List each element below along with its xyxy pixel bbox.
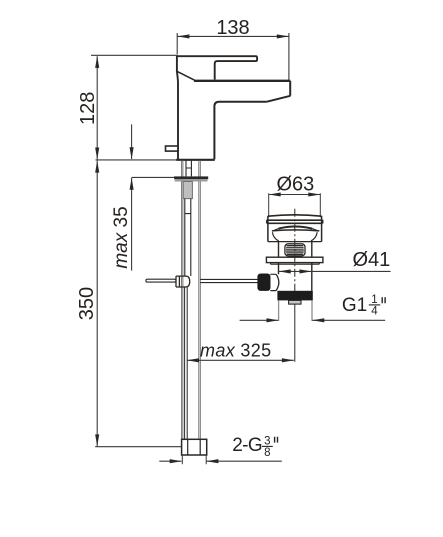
svg-text:2-G: 2-G <box>232 435 262 456</box>
pop-up rod connector <box>176 276 190 287</box>
dimension diam41 left arrow <box>279 269 291 273</box>
pop-up rod upper <box>185 199 191 276</box>
dimension 128 line <box>96 56 98 159</box>
hex nut facets <box>188 439 201 455</box>
svg-text:G1: G1 <box>342 295 367 316</box>
tube lower gray walls <box>279 300 312 321</box>
dimension max325 left arrow <box>187 358 199 362</box>
extension line 350 bottom <box>95 446 181 448</box>
dimension 350 line <box>96 161 98 447</box>
dimension 138 right arrow <box>277 34 289 38</box>
dimension diam63 right arrow <box>308 192 320 196</box>
drain centerline lower solid <box>294 300 296 362</box>
dimension 2G38 right line <box>206 460 281 462</box>
valve plunger dome <box>276 274 279 290</box>
svg-text:1: 1 <box>371 294 377 306</box>
extension line 128 top <box>91 54 177 56</box>
dimension G114 left line <box>240 319 279 321</box>
extension lines diam63 <box>269 193 321 217</box>
dimension diam63 line <box>269 194 321 196</box>
dimension 350 bottom arrow <box>95 434 99 446</box>
dimension 2G38 right arrow <box>206 459 218 463</box>
faucet body left edge <box>177 82 179 159</box>
faucet lever left edge <box>177 55 178 82</box>
horizontal rod left <box>146 279 176 282</box>
popup cap dome end ticks <box>273 229 318 231</box>
mounting washer gray <box>175 179 208 181</box>
svg-text:138: 138 <box>216 17 249 39</box>
popup cap top rim arc <box>268 215 322 216</box>
drain neck walls <box>279 242 312 257</box>
side knob <box>257 274 270 291</box>
dimension 2G38 left line <box>159 460 181 462</box>
popup cap funnel curves <box>272 232 317 241</box>
dimension 128 bottom arrow <box>95 148 99 160</box>
popup cap dome base <box>272 230 319 231</box>
dimension diam63 left arrow <box>269 192 281 196</box>
threaded rod above washer <box>186 160 191 176</box>
dimension max325 line <box>187 359 294 361</box>
svg-text:max 35: max 35 <box>111 206 132 268</box>
popup cap cylinder sides <box>268 216 322 242</box>
popup cap rim band <box>267 220 323 224</box>
faucet spout undercut <box>267 96 291 102</box>
extension line 138 left <box>176 33 178 55</box>
dimension max35 up arrow <box>130 178 134 190</box>
svg-text:8: 8 <box>264 447 270 459</box>
faucet spout right edge <box>289 81 291 96</box>
dimension max325 right arrow <box>282 358 294 362</box>
drain centerline dash-dot <box>294 209 296 300</box>
faucet spout bottom <box>214 102 267 160</box>
svg-text:Ø63: Ø63 <box>276 173 314 195</box>
faucet base bottom <box>176 159 215 161</box>
dimension G114 left arrow <box>267 318 279 322</box>
extension line 138 right <box>288 33 290 81</box>
faucet chamfer <box>177 71 195 80</box>
tailpiece tab <box>289 300 301 304</box>
extension line max35 <box>132 176 176 178</box>
dimension 2G38 left arrow <box>170 459 182 463</box>
dimension G114 right line <box>312 319 385 321</box>
dimension max35 down arrow <box>130 147 134 159</box>
faucet body top and spout top <box>194 80 290 82</box>
popup cap dome arc <box>279 227 313 229</box>
dimension 350 top arrow <box>95 161 99 173</box>
dimension 128 top arrow <box>95 56 99 68</box>
svg-text:4: 4 <box>371 305 378 317</box>
spring stem <box>285 244 305 256</box>
countertop line <box>96 159 177 161</box>
drain flange <box>266 257 323 262</box>
mounting washer dark <box>174 176 208 179</box>
dimension max35 upper arrow line <box>131 124 133 159</box>
right supply hose <box>199 160 201 439</box>
faucet side tab <box>166 146 178 151</box>
dimension diam41 right arrow <box>300 269 312 273</box>
dimension max35 lower line <box>131 178 133 271</box>
svg-text:max 325: max 325 <box>200 340 272 360</box>
svg-text:350: 350 <box>76 287 98 320</box>
hex nut at bottom <box>182 439 207 455</box>
dimension G114 right arrow <box>312 318 324 322</box>
spring coils <box>286 246 304 255</box>
dimension 138 left arrow <box>177 34 189 38</box>
svg-text:3: 3 <box>264 435 270 447</box>
faucet lever top <box>177 56 257 79</box>
threaded shank below washer <box>183 182 192 199</box>
horizontal rod right <box>200 279 257 282</box>
drain flange lip <box>271 263 320 265</box>
pop-up rod lower <box>185 287 188 439</box>
svg-text:Ø41: Ø41 <box>352 249 390 271</box>
svg-text:128: 128 <box>77 92 99 125</box>
dimension diam41 leader line <box>279 270 391 272</box>
popup cap bottom edge <box>268 241 322 243</box>
extension lines 2G38 <box>182 455 206 464</box>
left supply hose <box>182 160 183 439</box>
valve plunger collar <box>270 274 276 290</box>
dimension 138 line <box>177 35 288 37</box>
drain tube walls <box>279 263 312 291</box>
coupling nut band <box>277 291 312 301</box>
